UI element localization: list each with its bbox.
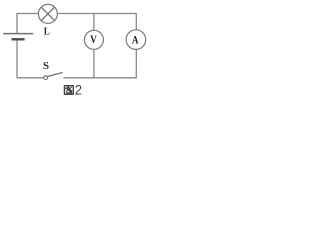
wire voltmeter branch upper	[93, 13, 95, 30]
wire left vertical upper	[16, 13, 18, 33]
voltmeter V circle	[84, 30, 103, 49]
svg-text:2: 2	[75, 83, 82, 98]
svg-text:L: L	[44, 26, 50, 38]
svg-text:V: V	[90, 33, 97, 46]
wire ammeter branch lower	[135, 49, 137, 78]
svg-text:A: A	[132, 35, 139, 47]
lamp L circle	[38, 4, 57, 23]
switch S pivot circle	[44, 76, 48, 80]
wire left vertical lower	[16, 41, 18, 79]
svg-text:S: S	[43, 60, 49, 72]
wire ammeter branch upper (right side)	[135, 13, 137, 30]
wire bottom-left segment	[17, 77, 44, 79]
caption figure glyph (tu)	[64, 86, 73, 95]
wire top-right segment	[57, 13, 136, 15]
wire top-left segment	[17, 13, 39, 15]
wire voltmeter branch lower	[93, 49, 95, 78]
wire bottom-right segment	[64, 77, 137, 79]
lamp L cross	[41, 7, 54, 20]
switch S blade	[47, 73, 62, 77]
battery B1 long plate	[3, 33, 33, 35]
battery B1 short plate	[12, 38, 25, 40]
ammeter A circle	[126, 30, 146, 50]
